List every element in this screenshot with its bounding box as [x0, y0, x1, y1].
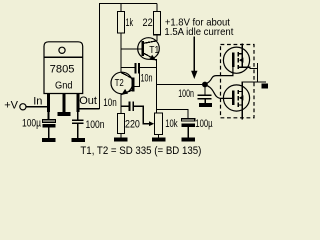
IC 7805 tab separation: [44, 56, 83, 58]
node junction dot: [202, 82, 208, 88]
annotation pointer line: [193, 37, 195, 72]
mosfet M1: [223, 47, 249, 73]
ground of 10k: [152, 137, 165, 141]
wire 220 to ground: [120, 133, 122, 137]
capacitor 100n output plates: [72, 120, 83, 122]
svg-text:+V: +V: [4, 99, 18, 111]
wire T1 base: [121, 48, 142, 50]
transistor T2: [111, 72, 133, 94]
capacitor 100u bias bottom plate: [182, 124, 195, 128]
wire gate M1: [205, 67, 233, 84]
IC 7805 mounting hole: [59, 47, 65, 53]
svg-text:T1: T1: [149, 45, 159, 56]
wire upper gate line: [157, 84, 202, 86]
wire 100u bias to ground: [187, 127, 189, 137]
resistor 220: [118, 114, 125, 134]
svg-text:10n: 10n: [103, 97, 117, 109]
wire 1k top lead: [120, 4, 122, 12]
wire 10n lower left lead: [121, 105, 129, 107]
ground of 100u bias: [182, 137, 195, 141]
svg-text:1k: 1k: [126, 17, 134, 29]
ground of 100n bias: [199, 103, 212, 107]
svg-text:22: 22: [143, 17, 153, 29]
capacitor 100u input top plate: [42, 120, 55, 122]
IC 7805 pin Gnd: [63, 94, 66, 112]
svg-text:100n: 100n: [86, 119, 105, 131]
wire 100n bias to ground: [204, 100, 206, 104]
capacitor 10n feedback plates: [134, 63, 136, 74]
wire M2 source: [241, 105, 243, 120]
resistor 22: [154, 12, 161, 35]
svg-text:Gnd: Gnd: [55, 80, 73, 92]
output tab: [262, 84, 269, 89]
svg-text:Out: Out: [79, 95, 97, 107]
ground of 100u input: [42, 138, 55, 142]
wire T2 base riser: [134, 74, 139, 87]
potentiometer wiper arrow: [149, 121, 154, 126]
potentiometer 10k body: [155, 113, 163, 135]
wire T1 emitter vertical: [156, 59, 158, 113]
wire supply rail and riser: [100, 4, 158, 109]
svg-text:10k: 10k: [165, 118, 178, 130]
wire gate M2: [205, 85, 233, 98]
ground of 7805: [57, 112, 70, 116]
wire 100n bias top lead: [204, 85, 206, 95]
svg-text:In: In: [33, 96, 42, 108]
annotation pointer arrowhead: [191, 71, 197, 79]
capacitor 10n lower plates: [128, 102, 130, 112]
wire 10n lower to pot wiper: [134, 106, 149, 123]
wire Out pin to riser: [79, 108, 99, 110]
wire T2 emitter vertical: [120, 94, 122, 113]
transistor T1: [138, 38, 160, 60]
wire lower gate line: [157, 109, 188, 118]
svg-text:100n: 100n: [178, 88, 194, 100]
wire 22 bottom to T1 collector: [156, 35, 158, 41]
svg-text:100µ: 100µ: [195, 118, 213, 130]
IC 7805 pin In: [47, 94, 50, 113]
terminal +V: [20, 104, 26, 110]
wire Out pin lower lead: [77, 112, 79, 120]
wire 22 top lead: [156, 4, 158, 12]
wire 1k bottom to T2 collector: [120, 33, 122, 72]
svg-text:T1, T2 = SD 335 (= BD 135): T1, T2 = SD 335 (= BD 135): [80, 145, 201, 157]
ground of 220: [114, 137, 127, 141]
capacitor 100n bias plates: [198, 94, 212, 96]
IC 7805 tab: [44, 42, 83, 94]
wire 10n feedback left lead: [121, 67, 135, 69]
mosfet M2: [223, 85, 249, 111]
capacitor 100u bias top plate: [182, 119, 195, 121]
svg-text:7805: 7805: [50, 63, 75, 75]
wire +V to In pin: [26, 106, 47, 108]
wire M1 drain: [241, 44, 243, 54]
svg-text:220: 220: [125, 118, 140, 130]
wire 100u input to ground: [48, 127, 50, 138]
svg-text:T2: T2: [115, 78, 125, 89]
svg-text:1.5A idle current: 1.5A idle current: [164, 26, 233, 38]
wire 10k to ground: [158, 135, 160, 138]
ground of 100n output: [72, 138, 85, 142]
IC 7805 pin Out: [76, 94, 79, 113]
wire 10n feedback right lead: [140, 67, 157, 69]
wire M2 drain: [242, 82, 257, 92]
resistor 1k: [118, 12, 125, 34]
svg-text:10n: 10n: [141, 73, 153, 85]
wire 100n output to ground: [77, 124, 79, 138]
capacitor 100u input bottom plate: [42, 124, 55, 128]
wire M1 source to output node: [242, 67, 257, 68]
dashed module box: [221, 45, 255, 118]
svg-text:100µ: 100µ: [22, 118, 41, 130]
